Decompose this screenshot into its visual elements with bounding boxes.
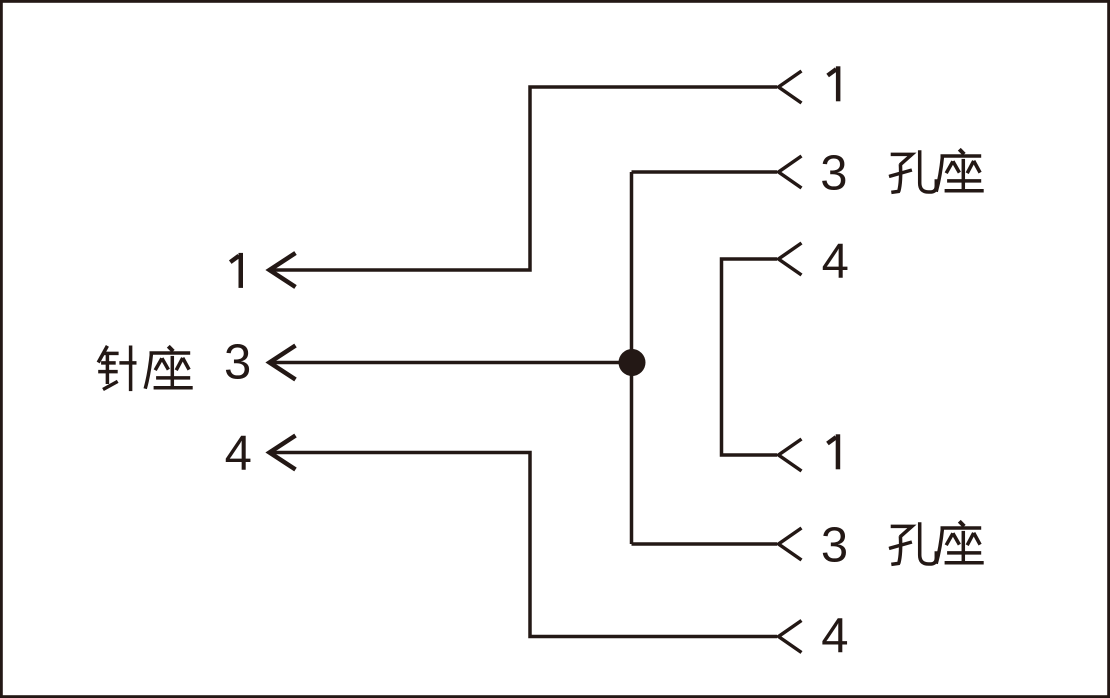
svg-text:4: 4 <box>821 609 848 663</box>
svg-text:3: 3 <box>224 336 251 390</box>
arrowhead: 针座 pin1 <box>270 253 296 287</box>
pin label: upper 孔座 pin 1 <box>828 66 839 101</box>
connector label: upper 孔座 (socket) 孔 <box>889 150 936 192</box>
wire: 针座 pin4 to lower 孔座 pin4 <box>270 453 777 637</box>
pin label: 针座 pin 1 <box>230 253 241 288</box>
arrowhead: upper 孔座 pin3 <box>779 156 802 188</box>
connector label: lower 孔座 (socket) 孔 <box>889 522 936 564</box>
junction node <box>619 349 646 376</box>
arrowhead: 针座 pin3 <box>270 346 296 380</box>
arrowhead: upper 孔座 pin1 <box>779 71 802 103</box>
arrowhead: lower 孔座 pin4 <box>779 621 802 653</box>
pin label: lower 孔座 pin 1 <box>827 434 838 469</box>
connector label: lower 孔座 (socket) 座 <box>936 521 984 564</box>
wire: stub to upper 孔座 pin3 <box>632 170 778 174</box>
connector label: upper 孔座 (socket) 座 <box>936 149 984 192</box>
wire: 针座 pin1 to upper 孔座 pin1 <box>270 87 777 270</box>
connector label: 针座 (pin header) 针 <box>98 346 136 392</box>
svg-text:3: 3 <box>820 146 847 200</box>
wire: stub to lower 孔座 pin3 <box>632 542 778 546</box>
wire: junction vertical bus <box>630 172 634 544</box>
arrowhead: lower 孔座 pin1 <box>779 439 802 471</box>
svg-text:4: 4 <box>225 427 252 481</box>
svg-text:4: 4 <box>822 234 849 288</box>
arrowhead: lower 孔座 pin3 <box>779 528 802 560</box>
svg-text:3: 3 <box>821 518 848 572</box>
connector label: 针座 (pin header) 座 <box>145 346 193 389</box>
wire: crossover bracket between 孔座 pin4 and pin1 <box>722 259 778 455</box>
wire: 针座 pin3 to junction <box>270 361 632 365</box>
arrowhead: upper 孔座 pin4 <box>779 243 802 275</box>
arrowhead: 针座 pin4 <box>270 436 296 470</box>
